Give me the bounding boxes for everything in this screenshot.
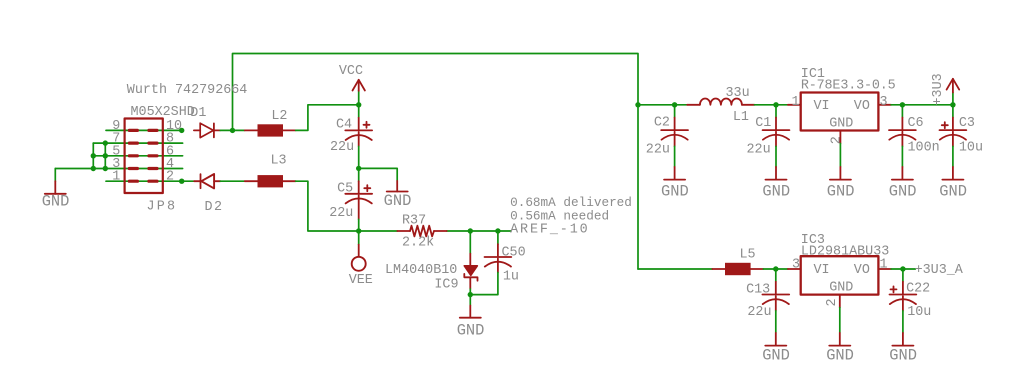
- supply VEE: [349, 231, 373, 288]
- wire C22 to GND: [902, 311, 904, 333]
- op IC3 regulator LD2981ABU33: [788, 233, 891, 308]
- svg-text:+3U3: +3U3: [931, 73, 946, 105]
- ground GND C3: [939, 167, 967, 201]
- svg-text:VEE: VEE: [349, 273, 373, 288]
- svg-text:+3U3_A: +3U3_A: [915, 263, 964, 278]
- diode D2: [194, 174, 223, 215]
- wire IC1 pin2 to GND: [839, 144, 841, 167]
- wire JP8 row 9-10: [106, 129, 182, 131]
- svg-text:GND: GND: [827, 182, 855, 200]
- junction top-left vertical: [230, 128, 235, 133]
- junction C1 top: [773, 102, 778, 107]
- wire D1 to junction: [220, 129, 232, 131]
- svg-text:GND: GND: [42, 193, 70, 211]
- label 0.68mA delivered: [510, 195, 632, 210]
- svg-text:10u: 10u: [959, 141, 983, 156]
- svg-text:AREF_-10: AREF_-10: [510, 222, 589, 237]
- wire JP8 row 3-4: [55, 168, 182, 170]
- svg-text:C22: C22: [906, 282, 930, 297]
- ground GND C6: [889, 167, 917, 201]
- wire JP8 row 5-6: [93, 155, 182, 157]
- svg-text:Wurth 742792664: Wurth 742792664: [127, 83, 248, 98]
- wire zener to bottom node: [469, 289, 471, 295]
- svg-text:22u: 22u: [747, 143, 771, 158]
- capacitor C50: [485, 231, 526, 285]
- wire bus vertical 1: [92, 143, 94, 168]
- svg-text:D1: D1: [190, 106, 206, 121]
- capacitor C22: [890, 269, 932, 320]
- wire top rail horizontal: [233, 54, 639, 270]
- junction pin10: [179, 128, 184, 133]
- svg-text:1u: 1u: [503, 270, 519, 285]
- svg-text:3: 3: [880, 95, 888, 110]
- wire bottom rail to L5: [638, 268, 712, 270]
- capacitor C6: [889, 105, 940, 156]
- junction C50 tap: [495, 228, 500, 233]
- svg-text:JP8: JP8: [147, 200, 178, 215]
- inductor L3: [245, 154, 296, 188]
- junction VCC node: [356, 102, 361, 107]
- ground GND below JP8: [42, 181, 70, 210]
- wire L1 to IC1: [755, 104, 788, 106]
- wire C3 to GND: [952, 146, 954, 167]
- junction C4/C5 node: [356, 166, 361, 171]
- svg-text:2.2k: 2.2k: [402, 235, 434, 250]
- inductor L2: [245, 109, 296, 137]
- inductor L1: [687, 86, 754, 125]
- wire C6 to GND: [901, 146, 903, 167]
- junction right rail top: [635, 102, 640, 107]
- svg-text:VI: VI: [814, 263, 830, 278]
- wire R37 to AREF: [447, 230, 511, 232]
- svg-text:IC9: IC9: [434, 277, 458, 292]
- svg-text:C6: C6: [908, 116, 924, 131]
- svg-text:LM4040B10: LM4040B10: [385, 263, 457, 278]
- svg-text:22u: 22u: [330, 140, 354, 155]
- svg-text:C1: C1: [755, 116, 771, 131]
- svg-text:GND: GND: [829, 281, 853, 296]
- junction C6 top: [900, 102, 905, 107]
- diode D1: [190, 106, 220, 138]
- ground GND IC1: [827, 167, 855, 201]
- svg-text:22u: 22u: [329, 206, 353, 221]
- junction C22 top: [900, 266, 905, 271]
- svg-text:GND: GND: [939, 182, 967, 200]
- zener diode IC9 LM4040B10: [385, 231, 478, 292]
- svg-text:2: 2: [166, 170, 174, 185]
- svg-text:GND: GND: [457, 321, 485, 339]
- svg-text:33u: 33u: [726, 86, 750, 101]
- svg-text:0.56mA needed: 0.56mA needed: [510, 209, 609, 224]
- ground GND below IC9: [457, 295, 485, 340]
- svg-text:C4: C4: [336, 117, 352, 132]
- wire IC3 out: [891, 268, 915, 270]
- ground GND near C5: [384, 181, 412, 210]
- svg-text:GND: GND: [829, 117, 853, 132]
- ground GND IC3: [826, 333, 854, 364]
- svg-text:1: 1: [792, 95, 800, 110]
- net label AREF_-10: [510, 222, 589, 237]
- svg-text:C50: C50: [502, 245, 526, 260]
- wire L2 to VCC node: [296, 105, 359, 131]
- label Wurth 742792664: [127, 83, 248, 98]
- junction bus dots: [91, 140, 108, 171]
- svg-text:C5: C5: [337, 182, 353, 197]
- svg-text:L5: L5: [740, 248, 756, 263]
- wire IC3 pin2 to GND: [839, 308, 841, 333]
- wire to D2: [182, 180, 195, 182]
- wire IC1 out: [891, 104, 953, 106]
- op IC1 regulator R-78E3.3-0.5: [788, 67, 896, 144]
- svg-text:M05X2SHD: M05X2SHD: [131, 105, 195, 120]
- net label +3V3_A: [915, 263, 964, 278]
- junction mid rail VEE: [356, 228, 361, 233]
- wire C50 to bottom node: [470, 273, 498, 295]
- resistor R37: [397, 214, 446, 251]
- capacitor C5: [329, 168, 372, 221]
- wire C1 to GND: [775, 146, 777, 167]
- wire junction to L2: [233, 129, 245, 131]
- junction bottom node: [468, 292, 473, 297]
- svg-text:VO: VO: [854, 99, 870, 114]
- svg-text:GND: GND: [826, 346, 854, 364]
- wire JP8 row 7-8: [93, 142, 182, 144]
- junction D2 left: [179, 179, 184, 184]
- wire L3 to mid rail: [296, 181, 398, 231]
- svg-text:10u: 10u: [907, 305, 931, 320]
- svg-text:L3: L3: [271, 154, 287, 169]
- wire to GND left: [54, 169, 56, 182]
- svg-text:R37: R37: [402, 214, 426, 229]
- wire node to GND stub: [359, 168, 398, 181]
- svg-text:R-78E3.3-0.5: R-78E3.3-0.5: [801, 78, 896, 93]
- capacitor C4: [330, 105, 372, 155]
- svg-text:22u: 22u: [747, 305, 771, 320]
- capacitor C2: [646, 105, 688, 158]
- svg-text:VI: VI: [814, 99, 830, 114]
- label 0.56mA needed: [510, 209, 609, 224]
- junction C13 top: [773, 266, 778, 271]
- wire C5 to mid rail: [358, 219, 360, 231]
- ground GND C1: [762, 167, 790, 201]
- svg-text:GND: GND: [889, 182, 917, 200]
- junction C2 top: [672, 102, 677, 107]
- capacitor C3: [940, 105, 984, 156]
- svg-text:L2: L2: [271, 109, 287, 124]
- svg-text:LD2981ABU33: LD2981ABU33: [801, 244, 889, 259]
- svg-text:GND: GND: [762, 346, 790, 364]
- wire C2 to GND: [674, 146, 676, 167]
- supply +3V3: [931, 73, 959, 105]
- wire L5 to IC3: [763, 268, 788, 270]
- junction zener tap: [468, 228, 473, 233]
- ground GND C22: [889, 333, 917, 364]
- svg-text:C13: C13: [746, 283, 770, 298]
- svg-text:3: 3: [792, 258, 800, 273]
- svg-text:100n: 100n: [908, 141, 940, 156]
- svg-text:C3: C3: [959, 116, 975, 131]
- svg-text:2: 2: [830, 136, 845, 144]
- svg-text:GND: GND: [384, 192, 412, 210]
- svg-text:C2: C2: [654, 115, 670, 130]
- wire JP8 row 1-2: [106, 180, 182, 182]
- wire C4 to node: [358, 147, 360, 169]
- wire bus vertical 2: [104, 143, 106, 168]
- supply VCC: [339, 64, 365, 105]
- svg-text:L1: L1: [733, 110, 749, 125]
- connector JP8: [112, 105, 194, 215]
- svg-text:VO: VO: [854, 263, 870, 278]
- ground GND C13: [762, 333, 790, 364]
- svg-text:22u: 22u: [646, 143, 670, 158]
- wire right rail to L1: [638, 104, 687, 106]
- wire C13 to GND: [775, 311, 777, 333]
- ground GND C2: [661, 167, 689, 201]
- inductor L5: [712, 248, 763, 276]
- svg-text:1: 1: [112, 170, 120, 185]
- svg-text:GND: GND: [661, 182, 689, 200]
- svg-text:VCC: VCC: [339, 64, 363, 79]
- capacitor C13: [746, 269, 789, 320]
- svg-text:GND: GND: [889, 346, 917, 364]
- svg-text:GND: GND: [762, 182, 790, 200]
- junction C3 top: [950, 102, 955, 107]
- svg-text:2: 2: [825, 298, 840, 306]
- capacitor C1: [747, 105, 790, 158]
- svg-text:D2: D2: [205, 200, 224, 215]
- svg-text:1: 1: [880, 258, 888, 273]
- wire D2 to L3: [220, 180, 244, 182]
